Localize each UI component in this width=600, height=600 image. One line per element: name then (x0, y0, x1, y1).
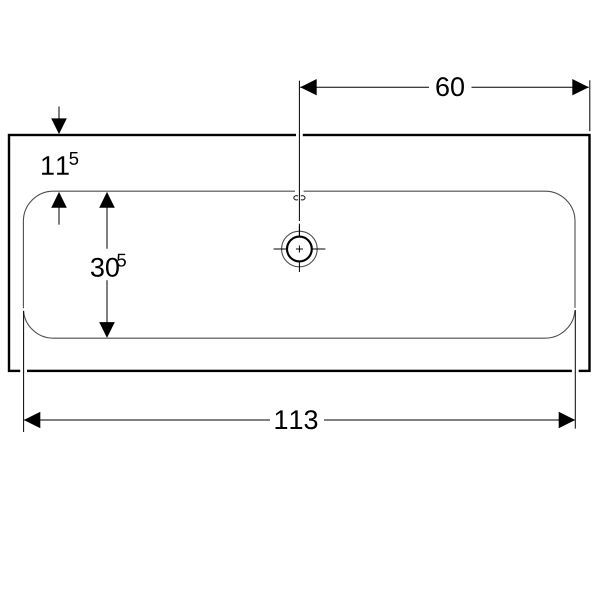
dimension 30_5: down arrowhead (99, 322, 115, 338)
drain bold circle (287, 237, 312, 262)
dimension 60: line left segment (300, 86, 429, 88)
dimension 60: label (436, 77, 464, 96)
drain center cross horizontal (296, 248, 303, 250)
dimension 30_5: label superscript (117, 254, 126, 267)
gap in bowl right edge above 113 extension line (574, 308, 576, 311)
inner basin bowl rounded rectangle (23, 191, 575, 338)
dimension 11_5: lower leader line (58, 205, 60, 225)
gap in bottom rim edge at left extension line (20, 369, 27, 373)
dimension 113: label (276, 410, 318, 429)
overflow slot left arc (294, 196, 298, 200)
faucet centerline (long dash) (298, 81, 300, 221)
dimension 60: right arrowhead (572, 79, 589, 95)
drain center mark vertical top segment (298, 226, 300, 237)
drain outer circle (282, 231, 318, 267)
dimension 60: left arrowhead (300, 79, 317, 95)
dimension 30_5: label main (91, 258, 119, 277)
gap in bowl top edge at faucet centerline (295, 190, 304, 193)
drain center cross vertical (298, 246, 300, 253)
gap in bowl left edge above 113 extension line (22, 308, 24, 311)
dimension 60: line right segment (472, 86, 589, 88)
faucet centerline (short dash) (298, 224, 300, 237)
drain center mark horizontal left segment (274, 248, 288, 250)
drain center mark horizontal right segment (312, 248, 326, 250)
dimension 11_5: label superscript (69, 152, 78, 165)
dimension 30_5: up arrowhead (99, 192, 115, 208)
washbasin outer rim rectangle (9, 135, 590, 371)
gap in top rim edge at faucet centerline (296, 133, 303, 137)
dimension 30_5: upper line segment (106, 205, 108, 249)
dimension 113: line left segment (24, 419, 270, 421)
dimension 11_5: down arrowhead (51, 118, 67, 134)
overflow slot right arc (301, 196, 305, 200)
dimension 113: right extension line (574, 310, 576, 429)
dimension 11_5: up arrowhead (51, 192, 67, 208)
drain center mark vertical bottom segment (298, 261, 300, 272)
dimension 113: left extension line (23, 311, 25, 432)
dimension 30_5: lower line segment (106, 280, 108, 324)
dimension 11_5: label main (42, 156, 69, 175)
dimension 113: line right segment (324, 419, 575, 421)
dimension 113: left arrowhead (24, 412, 41, 428)
gap in bottom rim edge at right extension line (572, 369, 579, 373)
dimension 11_5: upper leader line (58, 107, 60, 122)
dimension 113: right arrowhead (559, 412, 576, 428)
dimension 60: right extension line (589, 80, 591, 131)
